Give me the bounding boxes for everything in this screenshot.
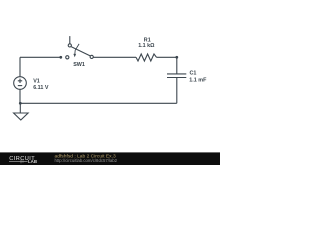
switch SW1 blade: [71, 47, 90, 56]
svg-text:V1: V1: [33, 79, 40, 85]
switch SW1 left terminal: [66, 56, 69, 59]
wire C1 bottom lead: [176, 78, 178, 104]
svg-text:SW1: SW1: [73, 62, 85, 68]
wire ground stub: [19, 103, 21, 113]
node junction dot at switch input: [59, 56, 62, 59]
wire node to C1 top plate: [176, 57, 178, 74]
svg-text:6.11 V: 6.11 V: [33, 85, 49, 91]
capacitor C1 top plate: [167, 73, 186, 75]
wire V1 bottom lead: [19, 89, 21, 103]
node junction dot top-right: [175, 56, 178, 59]
svg-text:1.1 mF: 1.1 mF: [189, 77, 207, 83]
wire R1 to top-right node: [157, 56, 177, 58]
switch SW1 actuator arrow: [73, 44, 79, 57]
node ground junction dot: [19, 102, 22, 105]
capacitor C1 bottom plate: [167, 77, 186, 79]
footer bar: [0, 152, 220, 165]
V1 plus sign: [18, 79, 22, 83]
wire bottom rail: [20, 102, 177, 104]
V1 minus sign: [18, 85, 22, 87]
switch SW1 top stub wire: [69, 36, 71, 44]
resistor R1 zigzag: [136, 54, 157, 61]
svg-text:http://circuitlab.com/c/8dc57/: http://circuitlab.com/c/8dc57/lab2: [55, 158, 118, 163]
wire top rail from corner to switch node: [20, 56, 61, 58]
wire V1 top lead to top-left corner: [19, 57, 21, 77]
ground symbol: [14, 113, 29, 120]
svg-text:C1: C1: [190, 71, 197, 77]
svg-text:LAB: LAB: [28, 159, 37, 164]
voltage source V1 body: [14, 77, 27, 90]
switch SW1 top terminal: [68, 44, 71, 47]
CircuitLab logo line and LAB: [9, 159, 37, 164]
wire switch output to R1: [93, 56, 136, 58]
svg-text:1.1 kΩ: 1.1 kΩ: [138, 43, 155, 49]
switch SW1 right terminal: [90, 55, 93, 58]
